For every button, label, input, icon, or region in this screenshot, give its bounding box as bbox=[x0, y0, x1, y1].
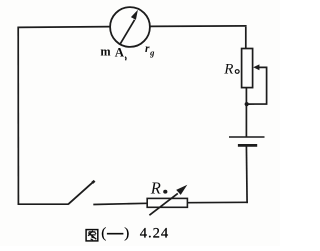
svg-text:4.24: 4.24 bbox=[140, 225, 169, 241]
label mA comma mark bbox=[124, 57, 127, 61]
wire right lower (battery to bottom corner) bbox=[245, 145, 248, 203]
wire bottom-middle bbox=[93, 203, 147, 204]
wire bottom-left bbox=[18, 203, 69, 205]
ammeter needle bbox=[120, 10, 138, 45]
svg-text:): ) bbox=[124, 225, 129, 241]
rheostat arrow head bbox=[176, 185, 187, 195]
caption: yi bar bbox=[107, 233, 124, 235]
svg-text:R: R bbox=[150, 179, 161, 198]
battery E: long positive plate bbox=[229, 136, 265, 138]
caption: hanzi TU (drawn) bbox=[86, 230, 98, 241]
battery E: short negative plate bbox=[238, 144, 257, 147]
resistor R (bottom, rheostat body) bbox=[147, 198, 187, 207]
switch S (open blade) bbox=[68, 182, 94, 205]
svg-text:R: R bbox=[223, 61, 233, 77]
wire bottom-right bbox=[187, 201, 248, 203]
resistor R0 (right, vertical) bbox=[242, 49, 253, 88]
svg-text:A: A bbox=[115, 46, 125, 60]
rheostat diagonal arrow shaft bbox=[149, 193, 177, 215]
label R subscript (inked dot) bbox=[163, 190, 167, 194]
junction node (dot) bbox=[245, 102, 249, 106]
svg-text:m: m bbox=[100, 44, 111, 58]
wire top-right bbox=[150, 25, 247, 28]
svg-text:(: ( bbox=[101, 225, 106, 241]
wire battery top plate to junction to R0 bottom bbox=[245, 88, 247, 137]
switch blade tip blob bbox=[92, 181, 94, 183]
wire R0 top to corner bbox=[245, 27, 247, 49]
wire left bbox=[17, 27, 19, 205]
ammeter mA (circle) bbox=[110, 7, 150, 47]
wire top-left bbox=[18, 26, 111, 29]
wiper arrow of R0 bbox=[249, 64, 267, 104]
label R0 subscript o bbox=[235, 70, 239, 74]
